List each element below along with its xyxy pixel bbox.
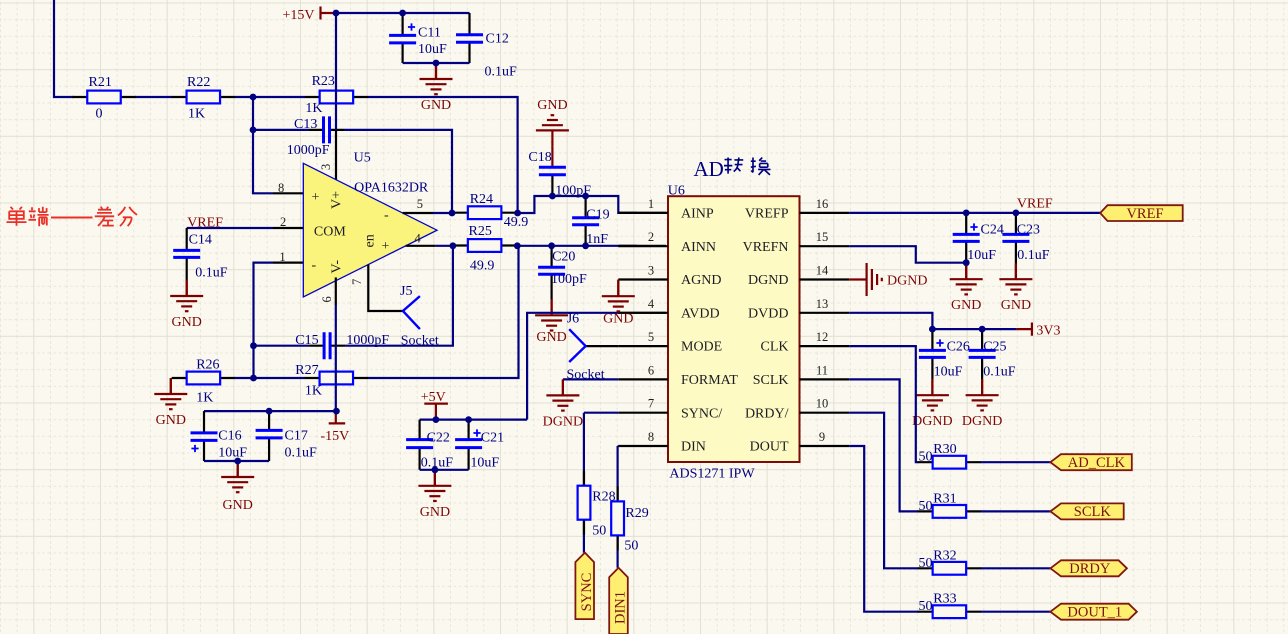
- svg-text:7: 7: [350, 279, 364, 285]
- svg-text:R29: R29: [625, 506, 648, 521]
- svg-text:AD_CLK: AD_CLK: [1068, 455, 1126, 471]
- svg-text:R32: R32: [933, 548, 956, 563]
- svg-text:50: 50: [624, 539, 638, 554]
- ground GND (AGND pin3): [602, 280, 635, 327]
- port SCLK: [1050, 503, 1123, 520]
- capacitor C14: [173, 228, 228, 281]
- ground DGND (pin14) sideways: [849, 263, 927, 296]
- resistor R22: [172, 75, 236, 122]
- svg-text:C12: C12: [486, 32, 509, 47]
- capacitor C18: [528, 146, 591, 198]
- capacitor C23: [1002, 213, 1049, 279]
- svg-text:3: 3: [319, 164, 333, 170]
- resistor R31: [918, 491, 982, 517]
- svg-text:C11: C11: [418, 26, 441, 41]
- svg-text:-15V: -15V: [321, 429, 350, 444]
- svg-text:R27: R27: [295, 363, 318, 378]
- capacitor C21: [455, 420, 504, 471]
- wire C11 C12 bottom rail: [403, 62, 470, 64]
- resistor R25: [453, 224, 516, 274]
- svg-text:C13: C13: [294, 117, 317, 132]
- svg-text:DGND: DGND: [543, 414, 583, 429]
- port DOUT_1: [1050, 604, 1137, 621]
- ground DGND (C26): [912, 379, 952, 429]
- wire C21 C22 bottom rail: [420, 469, 469, 471]
- connector J6 socket: [567, 312, 605, 383]
- svg-text:DIN: DIN: [681, 440, 706, 455]
- wire input node down to pin8: [253, 97, 303, 193]
- resistor R28: [578, 471, 616, 539]
- svg-text:Socket: Socket: [401, 334, 439, 349]
- wire R27 output up to pin4 node: [368, 246, 519, 378]
- svg-text:GND: GND: [421, 98, 451, 113]
- svg-text:OPA1632DR: OPA1632DR: [354, 181, 429, 196]
- wire J6 to MODE pin5: [586, 345, 619, 347]
- wire C16 C17 top rail: [204, 410, 336, 412]
- svg-text:GND: GND: [156, 413, 186, 428]
- wire DIN pin8 to R29: [616, 446, 619, 568]
- wire pin5 to R24: [403, 212, 453, 214]
- wire AINP link: [518, 196, 666, 213]
- svg-text:1000pF: 1000pF: [346, 333, 389, 348]
- wire R32 to port: [981, 567, 1051, 569]
- U6 pin 16 line: [800, 197, 850, 213]
- svg-text:SCLK: SCLK: [1074, 504, 1112, 520]
- svg-text:SYNC/: SYNC/: [681, 406, 722, 421]
- wire DRDY route: [849, 413, 918, 569]
- resistor R23: [305, 74, 369, 116]
- svg-text:C22: C22: [427, 431, 450, 446]
- svg-text:50: 50: [592, 524, 606, 539]
- ground GND (C14): [170, 280, 203, 330]
- wire C15 feedback: [254, 246, 453, 346]
- resistor R29: [611, 486, 649, 553]
- net label VREF (C14): [187, 216, 223, 231]
- svg-text:1K: 1K: [196, 391, 213, 406]
- svg-text:1000pF: 1000pF: [287, 143, 330, 158]
- wire R33 to port: [981, 611, 1051, 613]
- svg-text:ADS1271 IPW: ADS1271 IPW: [669, 467, 755, 482]
- wire VREF to pin2: [187, 227, 304, 229]
- title single-ended to differential (red): [7, 207, 138, 227]
- op-amp pin number 1: [279, 250, 285, 264]
- IC U6 ADS1271 IPW: [668, 184, 800, 482]
- U6 pin 15 line: [800, 230, 850, 246]
- port SYNC: [575, 553, 595, 620]
- svg-text:R33: R33: [933, 592, 956, 607]
- svg-text:VREF: VREF: [1017, 197, 1053, 212]
- svg-text:10uF: 10uF: [967, 248, 996, 263]
- wire op-amp pin7 to J5: [368, 265, 403, 312]
- net label VREF: [1017, 197, 1053, 212]
- svg-text:+: +: [382, 239, 390, 254]
- svg-text:GND: GND: [603, 312, 633, 327]
- U6 pin 13 line: [800, 297, 850, 313]
- capacitor C24: [953, 213, 1004, 263]
- port AD_CLK: [1050, 454, 1131, 471]
- svg-text:R22: R22: [187, 75, 210, 90]
- power -15V: [321, 411, 350, 444]
- wire R26 to R27: [235, 377, 305, 379]
- svg-text:6: 6: [648, 363, 654, 377]
- svg-text:AINN: AINN: [681, 240, 716, 255]
- svg-text:C21: C21: [481, 431, 504, 446]
- U6 pin 5 line: [618, 330, 668, 346]
- svg-text:AVDD: AVDD: [681, 306, 720, 321]
- svg-text:1K: 1K: [305, 384, 322, 399]
- svg-text:DRDY: DRDY: [1069, 561, 1111, 577]
- capacitor C17: [256, 411, 317, 461]
- svg-text:GND: GND: [1001, 298, 1031, 313]
- op-amp pin number 8: [278, 181, 284, 195]
- wire pin4 to R25: [406, 245, 453, 247]
- svg-text:3: 3: [648, 264, 654, 278]
- op-amp pin number 2: [280, 215, 286, 229]
- port VREF: [1100, 205, 1183, 222]
- svg-text:CLK: CLK: [761, 340, 789, 355]
- capacitor C16: [191, 411, 248, 461]
- svg-text:9: 9: [819, 430, 825, 444]
- wire DVDD to 3V3 rail: [849, 313, 1016, 329]
- svg-text:J6: J6: [567, 312, 579, 327]
- svg-text:C20: C20: [552, 250, 575, 265]
- svg-text:3V3: 3V3: [1036, 324, 1060, 339]
- svg-text:4: 4: [415, 232, 422, 246]
- wire +15V rail: [336, 12, 470, 14]
- svg-text:14: 14: [816, 264, 829, 278]
- capacitor C22: [406, 420, 453, 471]
- wire C16 C17 bottom rail: [204, 460, 269, 462]
- svg-text:+15V: +15V: [283, 8, 315, 23]
- svg-text:AD: AD: [694, 157, 724, 181]
- svg-text:DGND: DGND: [748, 273, 788, 288]
- U6 pin 10 line: [800, 397, 850, 413]
- svg-text:10uF: 10uF: [218, 446, 247, 461]
- svg-text:50: 50: [919, 556, 933, 571]
- svg-text:16: 16: [816, 197, 829, 211]
- U6 pin 2 line: [618, 230, 668, 246]
- svg-text:C24: C24: [981, 223, 1004, 238]
- capacitor C20: [538, 246, 587, 300]
- resistor R21: [72, 75, 136, 122]
- capacitor C11: [389, 13, 447, 63]
- svg-text:C15: C15: [295, 333, 318, 348]
- svg-text:10: 10: [816, 397, 829, 411]
- svg-text:8: 8: [648, 430, 654, 444]
- svg-text:+5V: +5V: [421, 390, 446, 405]
- svg-text:13: 13: [816, 297, 829, 311]
- capacitor C19: [572, 196, 610, 247]
- svg-text:0.1uF: 0.1uF: [1017, 248, 1050, 263]
- title AD converter (AD Zhuan Huan): [694, 157, 771, 181]
- ground DGND (FORMAT): [543, 379, 583, 429]
- ground GND (C11 C12): [420, 63, 453, 113]
- svg-text:C16: C16: [218, 429, 241, 444]
- svg-text:1: 1: [648, 197, 654, 211]
- op-amp pin number 7: [350, 279, 364, 285]
- svg-text:R25: R25: [469, 224, 492, 239]
- U6 pin 12 line: [800, 330, 850, 346]
- wire C13 feedback: [253, 130, 452, 213]
- svg-text:0.1uF: 0.1uF: [983, 365, 1016, 380]
- svg-text:1K: 1K: [188, 107, 205, 122]
- wire +15V down to op-amp pin3: [335, 13, 337, 180]
- resistor R30: [918, 442, 982, 468]
- U6 pin 6 line: [618, 363, 668, 379]
- svg-text:DGND: DGND: [887, 274, 927, 289]
- resistor R32: [918, 548, 982, 574]
- op-amp pin number 6: [320, 296, 334, 302]
- svg-text:49.9: 49.9: [504, 215, 529, 230]
- svg-text:VREFP: VREFP: [745, 207, 789, 222]
- ground GND (C24): [950, 263, 983, 314]
- svg-text:50: 50: [919, 599, 933, 614]
- svg-text:6: 6: [320, 296, 334, 302]
- svg-text:V+: V+: [330, 191, 345, 209]
- svg-text:VREFN: VREFN: [743, 240, 789, 255]
- power +15V: [283, 7, 337, 24]
- wire AD_CLK route: [849, 346, 918, 462]
- op-amp pin number 5: [417, 197, 423, 211]
- resistor R26: [172, 358, 236, 406]
- svg-text:-: -: [384, 208, 389, 223]
- op-amp pin number 3: [319, 164, 333, 170]
- power 3V3: [1016, 323, 1060, 339]
- op-amp pin number 4: [415, 232, 422, 246]
- ground DGND (C25): [962, 379, 1002, 429]
- wire VREFP net: [849, 212, 1100, 214]
- svg-text:C18: C18: [528, 150, 551, 165]
- svg-text:MODE: MODE: [681, 340, 722, 355]
- wire +5V to AVDD pin4: [527, 313, 666, 420]
- svg-text:C26: C26: [947, 340, 970, 355]
- capacitor C15: [295, 332, 389, 359]
- svg-text:C14: C14: [189, 233, 212, 248]
- capacitor C13: [287, 116, 344, 158]
- svg-text:R30: R30: [933, 442, 956, 457]
- svg-text:50: 50: [919, 450, 933, 465]
- ground GND (C20): [535, 299, 568, 345]
- ground GND (C23): [999, 263, 1032, 313]
- port DIN1: [609, 568, 628, 634]
- U6 pin 11 line: [800, 363, 850, 379]
- ground GND (C18) inverted: [536, 98, 569, 146]
- U6 pin 8 line: [618, 430, 668, 446]
- svg-text:R31: R31: [933, 491, 956, 506]
- wire R30 to port: [981, 461, 1051, 463]
- resistor R27: [295, 363, 368, 399]
- svg-text:GND: GND: [537, 98, 567, 113]
- svg-text:GND: GND: [536, 330, 566, 345]
- svg-text:C23: C23: [1017, 223, 1040, 238]
- svg-text:R26: R26: [196, 358, 219, 373]
- svg-text:50: 50: [919, 499, 933, 514]
- U6 pin 9 line: [800, 430, 850, 446]
- port DRDY: [1050, 560, 1127, 577]
- svg-text:U6: U6: [668, 184, 685, 199]
- ground GND (R26): [154, 378, 187, 428]
- svg-text:-: -: [312, 258, 317, 273]
- svg-text:SCLK: SCLK: [753, 373, 789, 388]
- svg-text:J5: J5: [400, 284, 412, 299]
- capacitor C26: [919, 329, 970, 379]
- svg-text:2: 2: [280, 215, 286, 229]
- wire op-amp pin6 down: [335, 277, 337, 411]
- connector J5 socket: [400, 284, 439, 349]
- svg-text:DGND: DGND: [912, 414, 952, 429]
- svg-text:0.1uF: 0.1uF: [485, 65, 518, 80]
- svg-text:5: 5: [417, 197, 423, 211]
- wire VREFN to C24 bottom: [849, 246, 966, 263]
- svg-text:1K: 1K: [305, 101, 322, 116]
- svg-text:4: 4: [648, 297, 655, 311]
- resistor R24: [453, 192, 528, 230]
- svg-text:0.1uF: 0.1uF: [285, 446, 318, 461]
- svg-text:GND: GND: [420, 505, 450, 520]
- svg-text:R23: R23: [312, 74, 335, 89]
- wire junctions: [234, 10, 1019, 474]
- wire DOUT_1 route: [849, 446, 918, 612]
- svg-text:11: 11: [816, 363, 828, 377]
- svg-text:15: 15: [816, 230, 829, 244]
- svg-text:GND: GND: [223, 498, 253, 513]
- svg-text:0.1uF: 0.1uF: [195, 266, 228, 281]
- op-amp U5 OPA1632DR: [303, 151, 437, 298]
- wire R31 to port: [981, 510, 1051, 512]
- U6 pin 3 line: [618, 264, 668, 280]
- resistor R33: [918, 592, 982, 618]
- svg-text:R21: R21: [89, 75, 112, 90]
- svg-text:10uF: 10uF: [470, 456, 499, 471]
- svg-text:12: 12: [816, 330, 829, 344]
- capacitor C25: [969, 329, 1016, 379]
- svg-text:DRDY/: DRDY/: [745, 406, 789, 421]
- svg-text:DOUT: DOUT: [750, 440, 789, 455]
- svg-text:R24: R24: [470, 192, 493, 207]
- svg-text:8: 8: [278, 181, 284, 195]
- svg-text:V-: V-: [330, 260, 345, 274]
- svg-text:1: 1: [279, 250, 285, 264]
- U6 pin 14 line: [800, 264, 850, 280]
- capacitor C12: [456, 13, 517, 80]
- svg-text:DOUT_1: DOUT_1: [1067, 605, 1122, 621]
- svg-text:+: +: [312, 190, 320, 205]
- U6 pin 1 line: [618, 197, 668, 213]
- wire SCLK route: [849, 379, 918, 511]
- svg-text:0: 0: [96, 107, 103, 122]
- svg-text:AINP: AINP: [681, 207, 714, 222]
- svg-text:DVDD: DVDD: [748, 306, 788, 321]
- svg-text:100pF: 100pF: [551, 272, 587, 287]
- svg-text:COM: COM: [314, 225, 346, 240]
- svg-text:en: en: [363, 234, 378, 247]
- ground GND (C16 C17): [221, 461, 254, 513]
- wire FORMAT pin6 to DGND: [563, 378, 618, 380]
- svg-text:C25: C25: [983, 340, 1006, 355]
- svg-text:AGND: AGND: [681, 273, 721, 288]
- svg-text:7: 7: [648, 397, 654, 411]
- power +5V: [421, 390, 448, 420]
- svg-text:49.9: 49.9: [470, 259, 495, 274]
- wire +5V rail: [420, 419, 527, 421]
- svg-text:C17: C17: [285, 429, 308, 444]
- ground GND (C21 C22): [418, 470, 451, 520]
- svg-text:SYNC: SYNC: [579, 573, 595, 612]
- svg-text:U5: U5: [354, 151, 371, 166]
- svg-text:5: 5: [648, 330, 654, 344]
- svg-text:FORMAT: FORMAT: [681, 373, 738, 388]
- svg-text:10uF: 10uF: [934, 365, 963, 380]
- svg-text:10uF: 10uF: [418, 42, 447, 57]
- wire AINN row: [517, 245, 666, 247]
- svg-text:VREF: VREF: [1126, 206, 1163, 222]
- wire net input left: [54, 0, 305, 97]
- svg-text:2: 2: [648, 230, 654, 244]
- svg-text:GND: GND: [172, 315, 202, 330]
- wire pin1 to feedback node: [254, 263, 304, 378]
- wire SYNC pin7 to R28: [584, 413, 618, 553]
- svg-text:DGND: DGND: [962, 414, 1002, 429]
- svg-text:GND: GND: [951, 298, 981, 313]
- U6 pin 7 line: [618, 397, 668, 413]
- svg-text:DIN1: DIN1: [613, 591, 629, 624]
- U6 pin 4 line: [618, 297, 668, 313]
- wire R23 output to pin5 node: [368, 97, 518, 213]
- svg-text:C19: C19: [586, 208, 609, 223]
